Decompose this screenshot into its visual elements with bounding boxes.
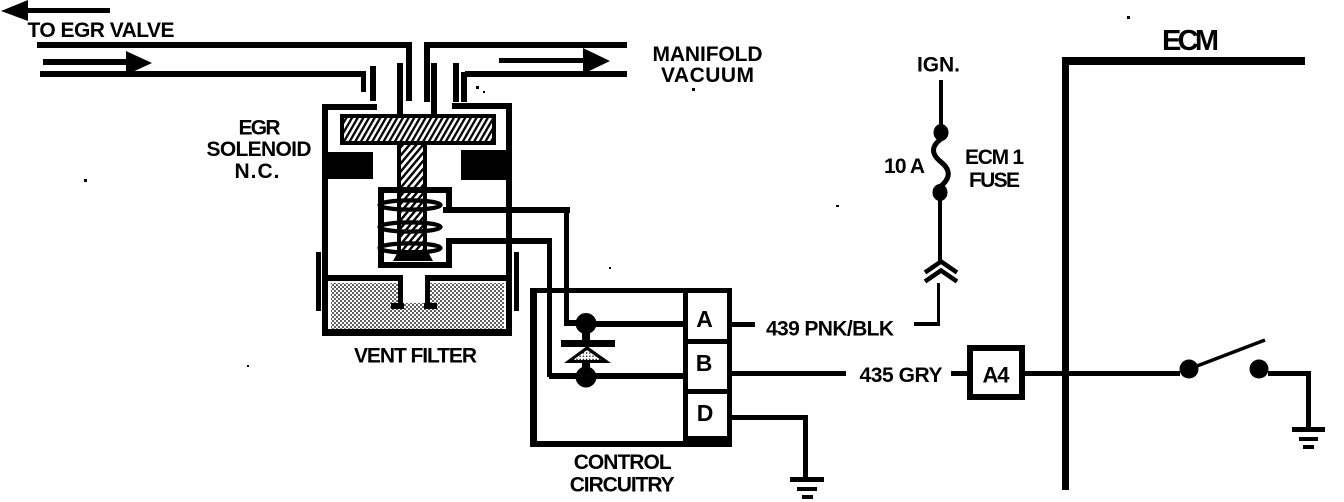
plunger pintle foot bbox=[393, 250, 433, 261]
label ECM 1 FUSE bbox=[965, 146, 1024, 192]
wire branch wall G bbox=[453, 63, 459, 102]
solenoid pole piece right (black) bbox=[461, 150, 506, 180]
svg-text:B: B bbox=[696, 350, 713, 376]
vent filter media (stippled) bbox=[331, 283, 504, 329]
arrow to EGR valve (left-pointing) bbox=[1, 0, 110, 21]
svg-text:MANIFOLD: MANIFOLD bbox=[653, 43, 763, 66]
inline connector chevrons bbox=[925, 262, 957, 282]
label MANIFOLD VACUUM bbox=[653, 43, 763, 87]
switch contact right bbox=[1250, 360, 1269, 379]
vent filter clip right bbox=[514, 252, 519, 311]
svg-text:VACUUM: VACUUM bbox=[661, 64, 754, 87]
solenoid body right wall bbox=[506, 103, 512, 336]
control circuitry box bbox=[530, 288, 732, 447]
vent filter cup floor bbox=[322, 329, 511, 336]
wire fuse down bbox=[938, 199, 942, 263]
wire node to pin B bbox=[549, 373, 683, 379]
wire branch wall F bbox=[431, 63, 437, 114]
wire inside ECM bbox=[1069, 371, 1180, 376]
vent filter clip left bbox=[316, 252, 321, 311]
svg-text:439 PNK/BLK: 439 PNK/BLK bbox=[766, 318, 894, 341]
svg-text:FUSE: FUSE bbox=[969, 169, 1020, 192]
label CONTROL CIRCUITRY bbox=[570, 451, 675, 497]
plunger stem (hatched) bbox=[397, 145, 427, 255]
flow arrow left pipe bbox=[43, 51, 152, 75]
wire branch wall H bbox=[461, 72, 467, 102]
svg-text:VENT FILTER: VENT FILTER bbox=[354, 345, 477, 368]
svg-text:N.C.: N.C. bbox=[235, 160, 280, 183]
solenoid bottom plate left bbox=[328, 275, 398, 281]
driver diode symbol bbox=[561, 330, 615, 370]
svg-text:435 GRY: 435 GRY bbox=[860, 364, 943, 387]
wire branch wall B bbox=[370, 66, 376, 101]
svg-text:ECM 1: ECM 1 bbox=[965, 146, 1024, 169]
solenoid body left wall bbox=[322, 104, 328, 336]
solenoid body top edge right bbox=[452, 103, 512, 109]
ground (ECM switch) bbox=[1292, 427, 1325, 449]
wire branch wall D bbox=[406, 42, 412, 101]
wire pin A stub bbox=[732, 322, 755, 327]
wire 439 corner bbox=[914, 283, 940, 326]
svg-text:A4: A4 bbox=[983, 363, 1011, 388]
flow arrow right pipe bbox=[499, 48, 610, 74]
svg-text:D: D bbox=[697, 400, 714, 426]
scan specks bbox=[84, 16, 1245, 367]
connector column divider bbox=[683, 290, 732, 441]
node dot lower bbox=[576, 367, 597, 388]
svg-text:EGR: EGR bbox=[239, 117, 281, 140]
armature plate (hatched) bbox=[340, 114, 496, 145]
wire branch wall E bbox=[424, 42, 430, 102]
label EGR SOLENOID N.C. bbox=[207, 117, 312, 184]
wire pin B stub bbox=[732, 371, 846, 376]
vent port notch bbox=[391, 275, 437, 309]
wire switch to ground bbox=[1268, 371, 1311, 428]
switch contact left bbox=[1180, 360, 1199, 379]
terminal A4 box bbox=[970, 348, 1022, 397]
switch blade bbox=[1197, 340, 1265, 366]
node dot upper bbox=[564, 313, 597, 334]
wire solenoid coil to control (lower) bbox=[450, 238, 552, 377]
wire solenoid coil to control (upper) bbox=[443, 207, 570, 325]
svg-text:10 A: 10 A bbox=[884, 155, 925, 178]
svg-text:IGN.: IGN. bbox=[917, 54, 960, 77]
svg-text:ECM: ECM bbox=[1162, 25, 1219, 57]
wire IGN to fuse bbox=[939, 80, 943, 127]
svg-text:CIRCUITRY: CIRCUITRY bbox=[570, 474, 675, 497]
wire A4 to ECM bbox=[1025, 371, 1062, 376]
wire 435 to A4 bbox=[951, 371, 967, 376]
spring coil bbox=[380, 200, 441, 252]
svg-text:A: A bbox=[696, 306, 713, 332]
svg-text:CONTROL: CONTROL bbox=[574, 451, 672, 474]
svg-text:SOLENOID: SOLENOID bbox=[207, 138, 312, 161]
wire pipe bottom wall right bbox=[465, 71, 627, 77]
wire branch wall C bbox=[397, 63, 403, 114]
wire node to pin A bbox=[594, 321, 683, 327]
coil bobbin box bbox=[378, 187, 452, 268]
wire pipe top wall left bbox=[37, 42, 412, 48]
solenoid body top edge left bbox=[324, 104, 377, 110]
ECM box edge bbox=[1062, 57, 1305, 490]
svg-text:TO EGR VALVE: TO EGR VALVE bbox=[28, 19, 175, 42]
solenoid pole piece left (black) bbox=[328, 152, 373, 179]
wire pin D stub bbox=[732, 415, 808, 479]
fuse ECM 1 (10 A) bbox=[933, 124, 949, 201]
ground (pin D) bbox=[790, 477, 824, 499]
wire pipe top wall right bbox=[424, 42, 627, 48]
wire pipe bottom wall left bbox=[40, 71, 366, 77]
solenoid bottom plate right bbox=[430, 275, 506, 281]
wire branch wall A bbox=[361, 71, 366, 92]
